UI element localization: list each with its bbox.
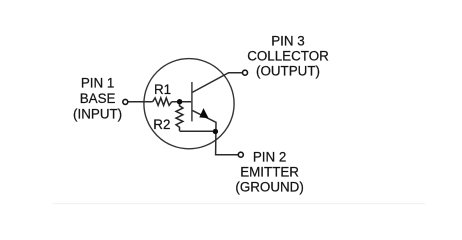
svg-text:EMITTER: EMITTER (240, 164, 299, 179)
node junction emitter/R2 (213, 129, 218, 134)
transistor Q1 emitter lead (192, 110, 238, 154)
svg-text:PIN 1: PIN 1 (81, 76, 115, 91)
faint rule artifact (52, 203, 425, 205)
transistor Q1 collector lead (192, 73, 242, 93)
svg-text:PIN 3: PIN 3 (271, 33, 305, 48)
svg-text:BASE: BASE (80, 91, 116, 106)
resistor R1 (153, 98, 172, 106)
svg-text:R1: R1 (154, 82, 171, 97)
wire base terminal to R1 (128, 101, 152, 103)
pin 3 terminal (243, 70, 248, 75)
transistor Q1 base bar (191, 82, 193, 121)
svg-text:(INPUT): (INPUT) (73, 106, 122, 121)
svg-text:PIN 2: PIN 2 (253, 149, 287, 164)
pin 1 terminal (123, 99, 128, 104)
svg-text:R2: R2 (153, 117, 170, 132)
resistor R2 (176, 104, 183, 131)
pin 2 terminal (238, 152, 243, 157)
wire R1 to base bar (172, 101, 192, 103)
svg-text:(GROUND): (GROUND) (235, 180, 303, 195)
wire R2 bottom to emitter junction (180, 130, 216, 132)
node junction R1/R2 (177, 99, 182, 104)
svg-text:(OUTPUT): (OUTPUT) (256, 64, 320, 79)
transistor envelope circle (144, 59, 234, 149)
transistor Q1 emitter arrow (199, 108, 208, 118)
svg-text:COLLECTOR: COLLECTOR (247, 48, 329, 63)
